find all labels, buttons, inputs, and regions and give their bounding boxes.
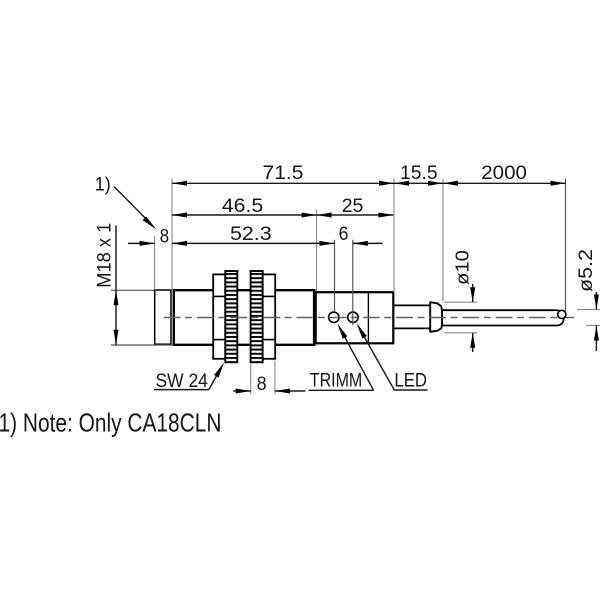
dim line 25 xyxy=(317,214,394,216)
leader SW24 underline xyxy=(154,389,209,391)
nut 1 hex face xyxy=(213,274,225,358)
cable end curve bottom xyxy=(557,317,564,325)
extension line nut width left xyxy=(250,364,252,394)
nut 2 hex face xyxy=(263,274,276,358)
svg-text:SW 24: SW 24 xyxy=(156,369,208,391)
nut 1 knurl xyxy=(225,271,237,362)
nut 2 hex line lower xyxy=(263,339,276,341)
threaded barrel bottom xyxy=(173,344,314,346)
leader LED underline xyxy=(394,389,428,391)
svg-text:ø5.2: ø5.2 xyxy=(575,249,597,292)
extension line M18 top xyxy=(111,289,155,291)
leader LED diagonal xyxy=(364,336,395,390)
extension line LED xyxy=(352,240,354,325)
dim line nut width left tail xyxy=(233,390,250,392)
svg-text:M18 x 1: M18 x 1 xyxy=(94,223,116,288)
dim line 71.5 xyxy=(172,182,394,184)
leader SW24 diagonal xyxy=(209,375,217,390)
cable bottom xyxy=(442,325,557,327)
dim line 2000 xyxy=(443,182,566,184)
threaded barrel top xyxy=(173,289,314,291)
extension line cable dia bottom xyxy=(586,325,600,327)
svg-text:8: 8 xyxy=(257,372,267,394)
dim line 46.5 xyxy=(172,214,317,216)
svg-text:71.5: 71.5 xyxy=(263,162,304,183)
leader TRIMM diagonal xyxy=(344,336,374,391)
neck top xyxy=(393,304,430,306)
svg-text:ø10: ø10 xyxy=(452,250,473,285)
dim line 8 front tail xyxy=(128,242,155,244)
trimmer hole xyxy=(329,312,339,322)
nut 2 knurl xyxy=(251,271,263,362)
centerline xyxy=(164,317,574,319)
dim line dia5.2 lower xyxy=(595,326,597,351)
cable end curve top xyxy=(557,310,563,312)
barrel end joint xyxy=(313,289,316,346)
svg-text:6: 6 xyxy=(339,222,349,244)
barrel left edge xyxy=(173,289,175,346)
cable gland flange xyxy=(430,302,442,332)
extension line gland dia top xyxy=(445,301,478,303)
svg-text:LED: LED xyxy=(394,370,427,391)
extension line M18 bottom xyxy=(111,344,174,346)
dim line dia10 upper xyxy=(472,284,474,302)
svg-text:TRIMM: TRIMM xyxy=(310,369,362,391)
leader TRIMM underline xyxy=(309,389,374,391)
dim line 6 right tail xyxy=(353,242,383,244)
housing joint line xyxy=(367,292,369,343)
extension line trimmer xyxy=(334,240,336,312)
svg-text:25: 25 xyxy=(342,195,364,217)
dim line dia10 lower xyxy=(472,333,474,352)
sensor front sleeve xyxy=(155,290,171,344)
extension line cable end xyxy=(565,179,567,313)
extension line gland dia bottom xyxy=(445,332,478,334)
svg-text:1) Note: Only CA18CLN: 1) Note: Only CA18CLN xyxy=(0,408,221,436)
nut 1 hex line upper xyxy=(213,295,225,297)
svg-text:2000: 2000 xyxy=(481,162,527,183)
svg-text:46.5: 46.5 xyxy=(222,195,264,217)
neck bottom xyxy=(393,327,430,329)
extension line front face xyxy=(154,236,156,290)
dim line 52.3 xyxy=(172,242,335,244)
dim line M18 xyxy=(115,225,117,345)
cable top xyxy=(442,309,557,311)
extension line barrel end xyxy=(316,210,318,292)
svg-text:52.3: 52.3 xyxy=(230,223,272,245)
leader note 1 xyxy=(114,187,146,219)
rear housing xyxy=(316,292,394,343)
dim line 15.5 xyxy=(394,182,443,184)
svg-text:1): 1) xyxy=(95,173,111,195)
cable end wire circle xyxy=(558,310,566,318)
dim line dia5.2 upper xyxy=(595,292,597,309)
svg-text:15.5: 15.5 xyxy=(400,162,438,184)
extension line cable dia top xyxy=(577,309,600,311)
LED hole xyxy=(348,312,358,322)
dim line nut width right tail xyxy=(275,390,305,392)
extension line cable start xyxy=(442,179,444,302)
svg-text:8: 8 xyxy=(160,225,169,246)
nut 1 hex line lower xyxy=(213,339,225,341)
extension line barrel start xyxy=(171,179,173,290)
nut 2 hex line upper xyxy=(263,295,276,297)
extension line nut width right xyxy=(274,361,276,394)
extension line housing end xyxy=(393,179,395,293)
